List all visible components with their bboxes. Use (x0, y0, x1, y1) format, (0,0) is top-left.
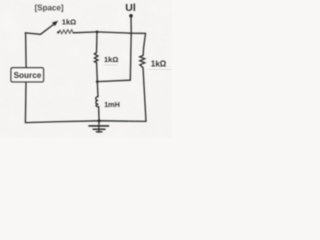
wire right rail upper (143, 33, 145, 55)
node junction B (96, 80, 99, 83)
node junction A (96, 31, 99, 34)
ground bar 1 (89, 125, 109, 127)
wire below R1 (96, 63, 99, 82)
wire bottom (25, 121, 146, 123)
ground bar 2 (93, 128, 105, 130)
scan artifact smear under R1 label (104, 64, 117, 66)
wire left rail upper (25, 33, 28, 68)
svg-text:1mH: 1mH (104, 100, 120, 109)
svg-text:1kΩ: 1kΩ (104, 55, 118, 64)
switch S1 arrowhead (52, 21, 58, 26)
switch S1 terminal dot (57, 31, 59, 33)
node junction C (ground tap) (98, 119, 101, 122)
svg-text:Ul: Ul (125, 2, 136, 14)
resistor R3 zigzag (in top wire) (58, 30, 73, 34)
resistor R1 zigzag (94, 53, 98, 63)
wire to inductor (96, 82, 99, 97)
wire left rail lower (24, 82, 27, 123)
wire sub-loop bottom (97, 80, 130, 81)
ground stem (98, 121, 100, 132)
ground bar 3 (96, 131, 102, 133)
svg-text:[Space]: [Space] (35, 3, 64, 12)
wire top (73, 32, 145, 34)
wire middle branch upper (96, 32, 99, 53)
switch S1 lever (41, 23, 56, 34)
resistor R2 zigzag (140, 55, 145, 67)
svg-text:Source: Source (14, 71, 42, 80)
wire right rail lower (143, 68, 146, 122)
inductor L1 coil (96, 97, 99, 107)
node Ui dot (129, 14, 133, 18)
svg-text:1kΩ: 1kΩ (151, 59, 167, 68)
wire Ui stub (crosses top wire) (129, 16, 132, 80)
scan artifact smear under R2 label (149, 68, 171, 70)
source box (11, 68, 44, 82)
wire below L1 (98, 107, 101, 121)
paper background (0, 0, 172, 138)
svg-text:1kΩ: 1kΩ (62, 18, 76, 27)
wire top-left stub (25, 33, 40, 34)
